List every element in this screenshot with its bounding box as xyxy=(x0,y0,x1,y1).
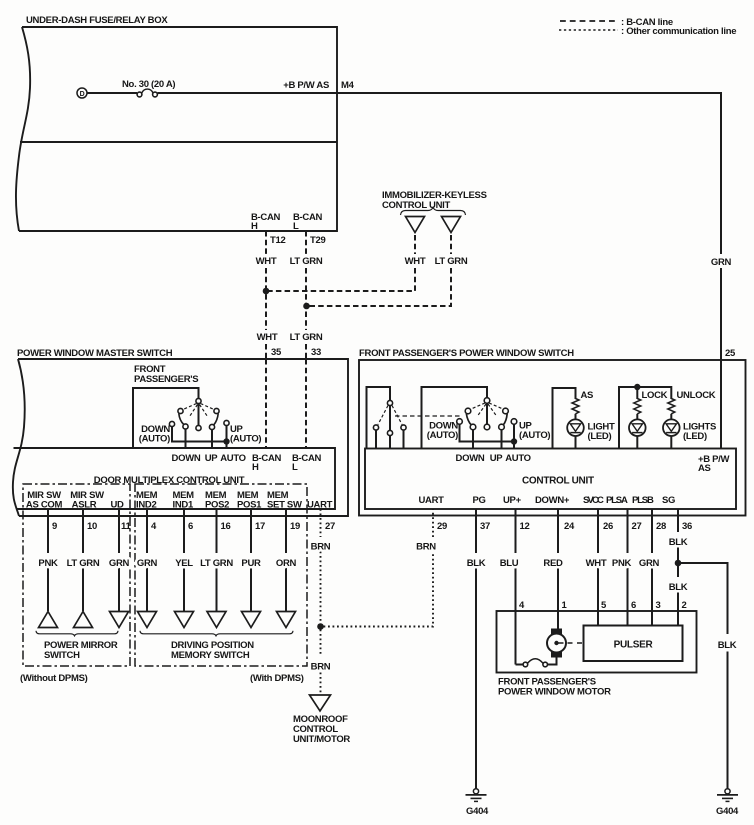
pin 28 wire GRN to pulser pin 3 xyxy=(651,509,653,553)
svg-text:: Other communication line: : Other communication line xyxy=(621,26,736,37)
svg-text:POS1: POS1 xyxy=(237,500,262,511)
svg-text:CONTROL UNIT: CONTROL UNIT xyxy=(382,200,450,211)
wire B-CAN L dashed inside master switch xyxy=(305,359,307,448)
svg-text:(AUTO): (AUTO) xyxy=(427,430,458,441)
svg-text:AS: AS xyxy=(581,390,594,401)
pin 9 wire PNK to power mirror switch xyxy=(47,509,49,553)
pin 4 wire GRN xyxy=(146,509,148,553)
wire GRN down right side to pin 25 xyxy=(720,92,722,254)
small switch contact left xyxy=(373,425,378,430)
passenger main switch feed wire xyxy=(422,387,488,449)
resistor UNLOCK xyxy=(668,399,675,414)
passenger switch contact center xyxy=(484,424,490,430)
svg-text:+B P/W AS: +B P/W AS xyxy=(283,80,329,91)
wire BLK branch to ground G404 right xyxy=(678,563,728,634)
svg-text:SET SW: SET SW xyxy=(267,500,302,511)
brace over immobilizer terminals xyxy=(401,208,466,216)
small switch pivot to center contact xyxy=(389,406,391,431)
small switch wires to control unit xyxy=(375,430,377,449)
small switch fan dashed xyxy=(378,406,388,425)
svg-text:DOWN+: DOWN+ xyxy=(535,495,570,506)
master switch contact center off xyxy=(196,425,201,430)
svg-text:G404: G404 xyxy=(716,806,739,817)
terminal triangle pin 17 xyxy=(242,612,261,628)
svg-text:MEMORY SWITCH: MEMORY SWITCH xyxy=(171,650,250,661)
svg-text:UART: UART xyxy=(419,495,445,506)
svg-text:IND1: IND1 xyxy=(173,500,194,511)
svg-text:BLK: BLK xyxy=(669,582,688,593)
svg-text:D: D xyxy=(80,91,85,98)
svg-text:UNLOCK: UNLOCK xyxy=(677,390,716,401)
svg-text:YEL: YEL xyxy=(175,558,193,569)
master switch moving contact right (arc) xyxy=(214,414,219,426)
front passenger's power window switch box xyxy=(359,360,746,516)
svg-text:SWITCH: SWITCH xyxy=(44,650,80,661)
svg-text:L: L xyxy=(292,462,298,473)
svg-text:UNDER-DASH FUSE/RELAY BOX: UNDER-DASH FUSE/RELAY BOX xyxy=(26,15,168,26)
master switch contact auto-down xyxy=(169,421,174,426)
svg-text:29: 29 xyxy=(437,521,447,532)
terminal triangle pin 19 xyxy=(277,612,296,628)
LED LOCK light xyxy=(636,414,638,420)
svg-text:DOWN: DOWN xyxy=(172,453,201,464)
svg-text:UART: UART xyxy=(307,500,333,511)
svg-text:GRN: GRN xyxy=(639,558,660,569)
terminal triangle pin 10 xyxy=(74,612,93,628)
LED AS light xyxy=(575,414,577,420)
ground G404 right xyxy=(725,789,730,794)
LED UNLOCK light xyxy=(670,414,672,420)
svg-text:2: 2 xyxy=(682,600,687,611)
svg-text:(Without DPMS): (Without DPMS) xyxy=(20,673,88,684)
svg-text:AUTO: AUTO xyxy=(505,453,531,464)
brace under power mirror triangles xyxy=(36,631,118,636)
svg-text:35: 35 xyxy=(271,347,282,358)
svg-text:POWER WINDOW MASTER SWITCH: POWER WINDOW MASTER SWITCH xyxy=(17,348,173,359)
dash-dot box driving position memory switch section xyxy=(135,484,307,666)
small switch contact right xyxy=(401,425,406,430)
master switch auto bus wire xyxy=(172,427,227,442)
svg-text:28: 28 xyxy=(656,521,666,532)
svg-text:PNK: PNK xyxy=(612,558,632,569)
svg-text:LT GRN: LT GRN xyxy=(290,332,323,343)
front passenger's power window motor box xyxy=(497,611,697,673)
svg-text:PLSB: PLSB xyxy=(632,495,654,506)
svg-text:(LED): (LED) xyxy=(588,431,612,442)
legend B-CAN line xyxy=(560,20,618,22)
svg-text:BLK: BLK xyxy=(718,640,737,651)
passenger auto bus wire xyxy=(460,424,515,441)
AS light branch feed xyxy=(553,388,576,449)
svg-text:37: 37 xyxy=(480,521,490,532)
svg-text:26: 26 xyxy=(603,521,613,532)
control unit box (passenger) xyxy=(365,449,736,510)
svg-text:PNK: PNK xyxy=(38,558,58,569)
master switch moving contact left (arc) xyxy=(179,414,184,425)
svg-text:10: 10 xyxy=(87,521,97,532)
motor M symbol xyxy=(551,629,562,635)
wire B-CAN H dashed inside master switch xyxy=(265,359,267,448)
terminal triangle pin 9 xyxy=(39,612,58,628)
svg-text:6: 6 xyxy=(631,600,636,611)
pin 6 wire YEL xyxy=(183,509,185,553)
passenger switch contact auto-down xyxy=(457,419,463,425)
svg-text:(AUTO): (AUTO) xyxy=(230,434,261,445)
junction UART / moonroof xyxy=(317,623,324,630)
svg-text:16: 16 xyxy=(221,521,231,532)
svg-text:M4: M4 xyxy=(341,80,355,91)
terminal triangle pin 6 xyxy=(175,612,194,628)
pin 24 wire RED to motor pin 1 xyxy=(557,509,559,553)
svg-text:WHT: WHT xyxy=(257,332,278,343)
small switch contact center xyxy=(387,430,392,435)
passenger switch contact auto-up xyxy=(511,419,517,425)
wire dotted UART master to passenger pin 29 xyxy=(324,552,434,627)
svg-text:WHT: WHT xyxy=(586,558,607,569)
svg-text:LT GRN: LT GRN xyxy=(435,256,468,267)
brace under memory switch triangles xyxy=(140,631,293,636)
svg-text:H: H xyxy=(252,462,259,473)
circuit breaker in motor xyxy=(516,664,524,666)
junction B-CAN L / immobilizer xyxy=(303,303,310,310)
svg-text:9: 9 xyxy=(52,521,57,532)
master switch contact auto-up xyxy=(224,420,229,425)
dashed link motor to pulser xyxy=(568,642,584,644)
immobilizer terminal triangle LT GRN xyxy=(442,217,461,233)
pin 27 wire PNK to pulser pin 6 xyxy=(627,509,629,553)
small linked switch feed wire xyxy=(367,387,391,449)
svg-text:LT GRN: LT GRN xyxy=(67,558,100,569)
passenger auto wire xyxy=(513,424,515,448)
svg-text:POS2: POS2 xyxy=(205,500,229,511)
svg-text:T29: T29 xyxy=(310,235,325,246)
svg-text:BLU: BLU xyxy=(500,558,519,569)
junction passenger auto bus xyxy=(511,438,517,444)
passenger switch moving contact left arc xyxy=(466,414,471,426)
svg-text:3: 3 xyxy=(656,600,661,611)
passenger switch fan dashed xyxy=(471,403,485,409)
immobilizer terminal triangle WHT xyxy=(406,217,425,233)
wire auto to control unit xyxy=(226,426,228,449)
svg-text:DOWN: DOWN xyxy=(456,453,485,464)
wire WHT dashed from immobilizer to junction xyxy=(414,235,416,254)
pin 27 wire BRN dotted (UART) xyxy=(320,509,322,537)
svg-text:33: 33 xyxy=(311,347,321,358)
junction auto bus xyxy=(223,438,229,444)
fuse box divider line xyxy=(20,141,337,143)
passenger switch pivot to center contact xyxy=(486,403,488,424)
power window master switch box outline (torn left edge) xyxy=(13,359,25,516)
wire up contact to control unit xyxy=(211,430,213,449)
wire B-CAN H dashed WHT from T12 down to master switch pin 35 xyxy=(265,231,267,254)
svg-text:CONTROL UNIT: CONTROL UNIT xyxy=(522,476,594,487)
wire from D to fuse xyxy=(87,92,137,94)
door multiplex control unit box xyxy=(14,448,336,509)
legend Other communication line xyxy=(559,29,618,31)
wire +B P/W AS from fuse to M4 and right edge xyxy=(158,92,722,94)
passenger up wire xyxy=(501,430,503,449)
svg-text:FRONT PASSENGER'S POWER WINDOW: FRONT PASSENGER'S POWER WINDOW SWITCH xyxy=(359,348,574,359)
svg-text:11: 11 xyxy=(121,521,131,532)
pin 10 wire LT GRN xyxy=(82,509,84,553)
passenger switch pivot xyxy=(484,398,490,404)
resistor LOCK xyxy=(634,399,641,414)
mechanical link dashed xyxy=(395,415,460,417)
under-dash fuse/relay box outline (torn left edge) xyxy=(16,27,30,231)
svg-text:WHT: WHT xyxy=(405,256,426,267)
svg-text:19: 19 xyxy=(290,521,300,532)
svg-text:G404: G404 xyxy=(466,806,489,817)
terminal triangle pin 4 xyxy=(138,612,157,628)
svg-text:UD: UD xyxy=(110,500,124,511)
svg-text:SG: SG xyxy=(662,495,675,506)
svg-text:36: 36 xyxy=(682,521,692,532)
svg-text:IND2: IND2 xyxy=(136,500,156,511)
svg-text:UP: UP xyxy=(490,453,504,464)
svg-text:L: L xyxy=(293,221,299,232)
svg-text:AUTO: AUTO xyxy=(220,453,246,464)
passenger switch moving contact right arc xyxy=(503,414,507,426)
node D (power source) xyxy=(77,88,87,98)
pin 36 wire BLK to pulser pin 2 xyxy=(677,509,679,532)
svg-text:27: 27 xyxy=(325,521,335,532)
wire B-CAN L dashed LT GRN from T29 down to master switch pin 33 xyxy=(305,231,307,254)
pin 19 wire ORN xyxy=(285,509,287,553)
LOCK/UNLOCK branch feed xyxy=(619,387,671,449)
svg-text:H: H xyxy=(251,221,258,232)
svg-text:(LED): (LED) xyxy=(683,431,707,442)
svg-text:AS COM: AS COM xyxy=(26,500,63,511)
svg-text:No. 30 (20 A): No. 30 (20 A) xyxy=(122,79,175,90)
svg-text:PASSENGER'S: PASSENGER'S xyxy=(134,374,198,385)
svg-text:24: 24 xyxy=(564,521,575,532)
svg-text:T12: T12 xyxy=(270,235,285,246)
master switch fan (dashed positions) xyxy=(183,404,197,410)
svg-text:BRN: BRN xyxy=(311,662,331,673)
junction B-CAN H / immobilizer xyxy=(263,288,270,295)
svg-text:12: 12 xyxy=(520,521,530,532)
svg-text:LOCK: LOCK xyxy=(642,390,668,401)
svg-text:ORN: ORN xyxy=(276,558,297,569)
svg-text:PG: PG xyxy=(473,495,486,506)
svg-text:GRN: GRN xyxy=(711,257,732,268)
svg-text:AS: AS xyxy=(698,463,711,474)
svg-text:BRN: BRN xyxy=(416,542,436,553)
pin 11 wire GRN xyxy=(118,509,120,553)
wire down contact to control unit xyxy=(185,429,187,448)
resistor AS xyxy=(572,399,579,414)
svg-text:UNIT/MOTOR: UNIT/MOTOR xyxy=(293,734,350,745)
terminal triangle pin 16 xyxy=(207,612,226,628)
svg-text:BRN: BRN xyxy=(311,542,331,553)
svg-text:GRN: GRN xyxy=(137,558,158,569)
svg-text:RED: RED xyxy=(543,558,563,569)
pulser box xyxy=(584,626,683,662)
junction SG xyxy=(675,560,682,567)
svg-text:PLSA: PLSA xyxy=(606,495,628,506)
svg-text:(AUTO): (AUTO) xyxy=(139,434,170,445)
svg-text:ASLR: ASLR xyxy=(72,500,97,511)
terminal triangle pin 11 xyxy=(110,612,129,628)
svg-text:25: 25 xyxy=(725,348,736,359)
svg-text:LT GRN: LT GRN xyxy=(290,256,323,267)
pin 37 wire BLK to ground xyxy=(475,509,477,553)
pin 16 wire LT GRN xyxy=(216,509,218,553)
svg-text:UP: UP xyxy=(205,453,219,464)
svg-text:BLK: BLK xyxy=(467,558,486,569)
svg-text:GRN: GRN xyxy=(109,558,130,569)
master switch feed wire xyxy=(133,388,199,449)
svg-text:PUR: PUR xyxy=(241,558,261,569)
svg-text:UP+: UP+ xyxy=(503,495,522,506)
svg-text:PULSER: PULSER xyxy=(614,640,654,651)
pin 17 wire PUR xyxy=(250,509,252,553)
svg-text:(AUTO): (AUTO) xyxy=(519,430,550,441)
svg-text:LT GRN: LT GRN xyxy=(200,558,233,569)
wire dotted junction to moonroof triangle xyxy=(320,630,322,657)
junction lock branch xyxy=(634,384,640,390)
terminal triangle moonroof xyxy=(310,695,331,711)
pin 12 wire BLU to motor pin 4 xyxy=(515,509,517,553)
svg-text:WHT: WHT xyxy=(256,256,277,267)
ground G404 left xyxy=(473,789,478,794)
svg-text:BLK: BLK xyxy=(669,537,688,548)
master switch pivot xyxy=(196,398,201,403)
dash-dot box power mirror switch section xyxy=(23,484,130,666)
wire LT GRN dashed from immobilizer to junction xyxy=(450,235,452,254)
pin 26 wire WHT to pulser pin 5 xyxy=(597,509,599,553)
svg-text:(With DPMS): (With DPMS) xyxy=(250,673,304,684)
svg-text:27: 27 xyxy=(632,521,642,532)
svg-text:6: 6 xyxy=(188,521,193,532)
master switch pivot to center contact xyxy=(198,404,200,426)
small switch pivot xyxy=(387,400,392,405)
svg-text:17: 17 xyxy=(255,521,265,532)
passenger down wire xyxy=(472,430,474,449)
svg-text:SVCC: SVCC xyxy=(583,495,604,506)
svg-text:POWER WINDOW MOTOR: POWER WINDOW MOTOR xyxy=(498,687,611,698)
